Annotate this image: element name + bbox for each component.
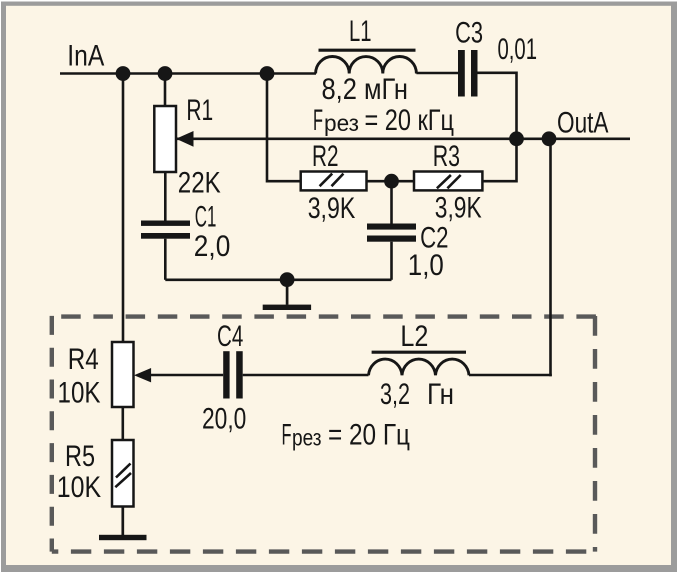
node R1 top: [158, 66, 173, 81]
wire R3 to corner: [482, 139, 516, 181]
ground bar bottom: [99, 535, 147, 540]
svg-text:1,0: 1,0: [408, 249, 444, 282]
wire C2 down: [390, 242, 393, 280]
ground bar: [263, 305, 311, 310]
svg-text:F: F: [313, 104, 323, 137]
svg-text:F: F: [282, 419, 292, 452]
wire R4 to C4: [151, 374, 223, 377]
svg-text:R2: R2: [312, 140, 339, 173]
resistor R5: [112, 440, 134, 507]
ground stub: [286, 280, 289, 305]
wire R5 to ground: [121, 507, 124, 536]
svg-text:C1: C1: [195, 201, 217, 234]
node InA: [116, 66, 131, 81]
svg-text:3,9K: 3,9K: [435, 192, 482, 225]
wire L1 to C3: [416, 72, 458, 75]
wire R4 to R5: [122, 407, 125, 440]
svg-text:10K: 10K: [57, 471, 102, 504]
wire left vertical from InA node: [122, 74, 125, 343]
resistor R3: [414, 172, 482, 191]
svg-text:R1: R1: [186, 94, 213, 127]
svg-text:R4: R4: [68, 343, 99, 376]
svg-text:рез: рез: [292, 425, 322, 451]
wire OutA down: [549, 139, 552, 376]
wire C4 to L2: [243, 374, 369, 377]
svg-text:3,2: 3,2: [380, 378, 410, 411]
wire C1 down: [164, 239, 167, 280]
wire InA horizontal: [60, 72, 316, 75]
node ground: [280, 272, 295, 287]
wire L2 to right vertical: [469, 374, 552, 377]
wire R2 to R3: [367, 180, 415, 183]
wire OutA horizontal: [176, 138, 630, 141]
wire branch vertical to R2: [267, 74, 301, 182]
svg-text:рез: рез: [324, 110, 359, 136]
svg-text:Гн: Гн: [427, 378, 454, 411]
L2 overline: [372, 351, 466, 354]
svg-text:OutA: OutA: [557, 107, 609, 140]
svg-text:= 20 кГц: = 20 кГц: [365, 104, 455, 137]
node mid R2R3: [384, 174, 399, 189]
svg-text:R3: R3: [433, 140, 460, 173]
svg-text:= 20 Гц: = 20 Гц: [328, 419, 410, 452]
wire node to C2: [390, 181, 393, 223]
resistor R2: [301, 172, 367, 191]
dashed box left edge: [50, 316, 54, 552]
capacitor C3: [458, 50, 465, 97]
wire C3 to corner: [478, 73, 517, 139]
arrow to R1: [176, 131, 194, 147]
capacitor C4: [223, 351, 229, 398]
svg-text:InA: InA: [67, 40, 104, 73]
capacitor C1: [141, 221, 190, 226]
svg-text:C4: C4: [217, 320, 243, 353]
inductor L2: [369, 359, 470, 375]
inductor L1: [316, 56, 417, 73]
svg-text:0,01: 0,01: [498, 33, 538, 66]
svg-text:2,0: 2,0: [194, 230, 231, 263]
node C3 branch: [509, 131, 524, 146]
svg-text:8,2 мГн: 8,2 мГн: [322, 73, 409, 106]
wire R1 top: [164, 74, 167, 107]
dashed box top edge: [61, 314, 596, 318]
svg-text:3,9K: 3,9K: [308, 192, 356, 225]
svg-text:R5: R5: [65, 440, 95, 473]
svg-text:10K: 10K: [58, 377, 101, 410]
arrow to R4: [134, 368, 151, 382]
wire bottom common: [165, 278, 391, 281]
capacitor C2: [367, 224, 416, 230]
resistor R4 (potentiometer): [112, 342, 134, 407]
wire R1 to C1: [164, 172, 167, 221]
resistor R1 (potentiometer): [154, 106, 176, 172]
svg-text:L1: L1: [349, 15, 372, 48]
svg-text:C3: C3: [455, 17, 483, 50]
svg-text:L2: L2: [400, 320, 428, 353]
node OutA: [542, 131, 557, 146]
dashed box right edge: [593, 316, 597, 552]
svg-text:20,0: 20,0: [202, 403, 246, 436]
svg-text:22K: 22K: [178, 167, 221, 200]
dashed box bottom edge: [52, 549, 595, 553]
node branch top: [260, 66, 275, 81]
L1 overline: [319, 49, 416, 52]
